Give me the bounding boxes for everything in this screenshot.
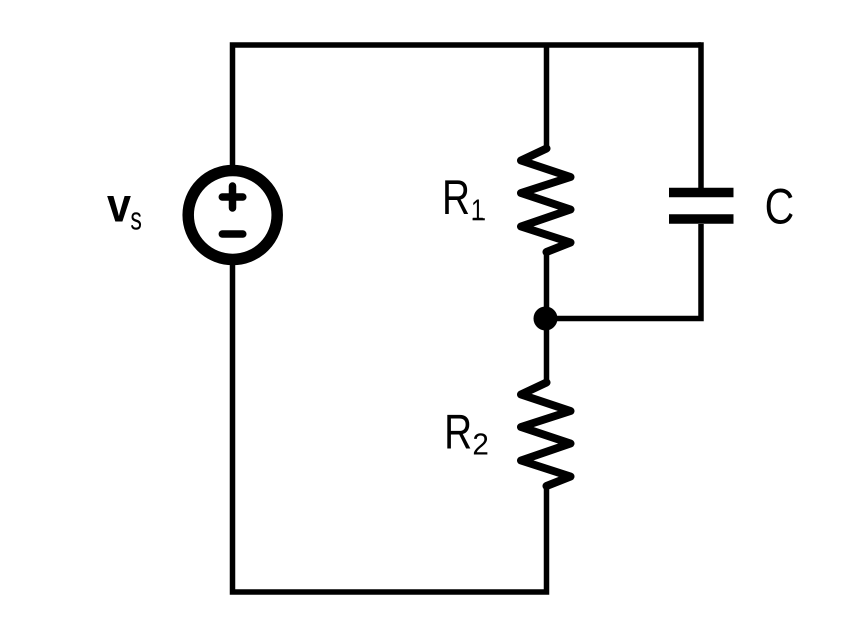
svg-text:2: 2: [472, 427, 489, 462]
wire: left rail (bottom part), bottom rail, and R2 bottom lead: [233, 265, 547, 592]
svg-text:R: R: [444, 406, 472, 460]
wire: capacitor bottom lead and horizontal wire to node: [547, 224, 702, 319]
wire: left rail (top part) and top rail: [233, 45, 702, 165]
svg-text:1: 1: [471, 194, 484, 227]
voltage source vs minus sign: [222, 230, 243, 238]
node junction dot between R1 and R2: [534, 307, 558, 331]
wire: capacitor top lead from top rail: [698, 42, 704, 188]
voltage source vs plus sign: [222, 186, 243, 208]
svg-text:R: R: [442, 171, 470, 225]
svg-text:v: v: [107, 180, 131, 233]
wire: R1 bottom lead to node: [544, 251, 550, 319]
capacitor C top plate: [669, 188, 734, 198]
wire: R1 top lead from top rail: [544, 45, 550, 149]
svg-text:s: s: [130, 201, 142, 237]
resistor R1 zigzag: [521, 149, 571, 253]
svg-text:C: C: [765, 179, 795, 235]
resistor R2 zigzag: [521, 383, 571, 487]
capacitor C bottom plate: [669, 214, 734, 224]
voltage source vs (circle): [188, 171, 277, 260]
wire: node to R2 top lead: [544, 318, 550, 383]
